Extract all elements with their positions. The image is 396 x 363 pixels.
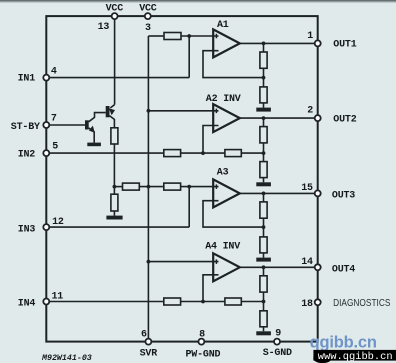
ground A2 divider (256, 182, 271, 186)
svg-text:IN3: IN3 (18, 224, 36, 235)
resistor bias shunt (111, 194, 118, 211)
transistor Q1 emitter arrow (89, 126, 95, 133)
pin 14 OUT4 (315, 264, 321, 270)
plus marker A2 (215, 109, 217, 114)
transistor Q2 base-collector (109, 116, 114, 128)
svg-text:14: 14 (301, 257, 313, 268)
svg-text:1: 1 (307, 31, 313, 42)
resistor A1 divider lower (260, 87, 267, 103)
svg-text:A4 INV: A4 INV (205, 241, 240, 252)
wire A4 plus input row (148, 261, 218, 263)
transistor Q1 emitter wire (89, 128, 95, 143)
resistor A4 divider lower (260, 311, 267, 327)
svg-text:OUT4: OUT4 (332, 264, 355, 275)
wire A1 output row (240, 42, 318, 44)
svg-text:OUT3: OUT3 (332, 190, 355, 201)
ground A4 divider (256, 331, 271, 335)
svg-text:DIAGNOSTICS: DIAGNOSTICS (333, 297, 390, 309)
svg-text:4: 4 (51, 67, 57, 78)
pin 2 OUT2 (315, 115, 321, 121)
resistor A4 feedback (225, 298, 241, 305)
wire A4 divider ground stub (263, 327, 265, 332)
watermark black box (313, 350, 396, 361)
pin 3 VCC (145, 13, 151, 19)
resistor A2 divider upper (260, 127, 267, 143)
wire A2 feedback to divider node (241, 152, 263, 154)
pin 8 PW-GND (198, 339, 204, 345)
junction A3 output (262, 192, 266, 196)
svg-text:6: 6 (141, 329, 147, 340)
svg-text:2: 2 (307, 106, 313, 117)
svg-text:13: 13 (98, 22, 110, 33)
wire A3 divider ground stub (263, 253, 265, 258)
resistor IN4 input (164, 298, 181, 305)
op-amp A3 (213, 179, 240, 207)
resistor IN2 input (164, 150, 181, 157)
pin 9 S-GND (274, 339, 280, 345)
pin 7 ST-BY (43, 122, 49, 128)
wire bias shunt stub (113, 187, 115, 195)
junction A2 output (262, 116, 266, 120)
wire bias shunt ground stub (113, 211, 115, 216)
svg-text:ST-BY: ST-BY (11, 122, 40, 133)
svg-text:18: 18 (301, 299, 313, 310)
junction bias row SVR line (147, 185, 151, 189)
plus marker A4 (215, 259, 217, 264)
pin 1 OUT1 (315, 40, 321, 46)
wire A4 feedback to divider node (241, 301, 263, 303)
plus marker A1 (215, 34, 217, 39)
resistor Q2 collector (111, 128, 118, 144)
junction A2 feedback node (262, 151, 266, 155)
pin 6 SVR (145, 339, 151, 345)
wire A2 divider ground stub (263, 178, 265, 183)
op-amp A4 (213, 253, 240, 281)
pin 5 IN2 (43, 150, 49, 156)
plus marker A3 (215, 184, 217, 189)
wire IN2 row (46, 152, 164, 154)
svg-text:SVR: SVR (140, 349, 158, 360)
svg-text:qgibb.cn: qgibb.cn (310, 334, 377, 352)
transistor Q2 base bar (106, 106, 110, 117)
ground Q1 emitter (87, 143, 101, 147)
svg-text:VCC: VCC (106, 3, 124, 14)
wire Q2 collector to bias node (113, 144, 115, 187)
resistor A3 divider lower (260, 237, 267, 253)
pin 13 VCC (112, 13, 118, 19)
svg-text:M92W141-03: M92W141-03 (41, 354, 92, 363)
wire bias row middle (139, 186, 164, 188)
svg-text:OUT2: OUT2 (333, 114, 356, 125)
junction A2 minus on IN2 row (201, 151, 205, 155)
svg-text:12: 12 (52, 217, 64, 228)
junction A4 minus on IN4 row (201, 300, 205, 304)
junction bias row IN3 riser (187, 185, 191, 189)
wire IN4 row (46, 301, 164, 303)
svg-text:IN1: IN1 (18, 74, 36, 85)
transistor Q2 emitter arrow (109, 108, 115, 115)
transistor Q1 base bar (85, 120, 89, 129)
svg-text:S-GND: S-GND (263, 348, 292, 359)
pin 12 IN3 (43, 224, 49, 230)
ground A1 divider (256, 108, 271, 112)
svg-text:8: 8 (199, 329, 205, 340)
svg-text:PW-GND: PW-GND (186, 350, 221, 361)
wire pin3 bias row (148, 35, 164, 37)
wire IN4 to feedback resistor (181, 301, 225, 303)
wire IN2 to feedback resistor (181, 152, 225, 154)
junction A1 feedback node (262, 76, 266, 80)
svg-text:IN2: IN2 (18, 149, 36, 160)
junction A4 plus on SVR line (147, 260, 151, 264)
wire ST-BY base (46, 124, 85, 126)
op-amp A1 (213, 29, 240, 57)
junction bias A1 row (187, 34, 191, 38)
wire bias row to A3 plus input (181, 186, 219, 188)
junction A3 feedback node (262, 225, 266, 229)
wire A1 divider ground stub (263, 103, 265, 108)
svg-text:7: 7 (51, 114, 57, 125)
svg-text:IN4: IN4 (18, 298, 36, 309)
resistor bias row right (164, 183, 181, 190)
resistor A2 divider lower (260, 162, 267, 178)
wire A3 divider upper stub (263, 193, 265, 202)
wire IN1 row (46, 77, 189, 79)
wire A1 divider mid stub (263, 68, 265, 87)
ground A3 divider (256, 258, 271, 262)
svg-text:VCC: VCC (139, 3, 157, 14)
wire A1 minus input (203, 51, 264, 78)
pin 4 IN1 (43, 75, 49, 81)
wire bias to A1 plus input (181, 35, 219, 37)
wire A2 output row (240, 117, 318, 119)
op-amp A2 (213, 104, 240, 132)
junction A4 feedback node (262, 300, 266, 304)
wire SVR vertical line (147, 36, 149, 342)
svg-text:11: 11 (52, 291, 64, 302)
transistor Q2 emitter wire with arrow (110, 105, 114, 108)
wire A3 output row (240, 192, 318, 194)
resistor A3 divider upper (260, 202, 267, 218)
resistor bias A1 (164, 33, 181, 40)
wire A3 divider mid stub (263, 218, 265, 237)
svg-text:15: 15 (301, 183, 313, 194)
wire A2 minus input riser (203, 126, 219, 154)
junction bias node (113, 185, 117, 189)
wire A2 plus input row (148, 110, 218, 112)
wire bias node to resistor row (114, 186, 122, 188)
svg-text:5: 5 (52, 141, 58, 152)
svg-text:www.qgibb.cn: www.qgibb.cn (318, 351, 393, 363)
svg-text:A1: A1 (217, 20, 229, 31)
resistor A2 feedback (225, 150, 241, 157)
ground bias shunt (106, 216, 122, 220)
junction A2 plus on SVR line (147, 109, 151, 113)
pin 15 OUT3 (315, 190, 321, 196)
svg-text:9: 9 (275, 329, 281, 340)
resistor A4 divider upper (260, 276, 267, 292)
junction A4 output (262, 265, 266, 269)
pin 18 DIAGNOSTICS (315, 299, 321, 305)
wire A4 divider mid stub (263, 292, 265, 311)
wire IN3 riser (188, 187, 190, 228)
wire A2 divider mid stub (263, 143, 265, 162)
wire A4 minus input riser (203, 275, 219, 302)
wire A1 divider upper stub (263, 43, 265, 52)
wire A2 divider upper stub (263, 118, 265, 127)
wire Q1 collector to Q2 base (89, 113, 106, 122)
wire IN1 riser (188, 36, 190, 78)
wire A3 minus input (203, 201, 264, 227)
wire A4 output row (240, 266, 318, 268)
IC boundary box (46, 16, 317, 342)
svg-text:A2 INV: A2 INV (206, 94, 241, 105)
junction A1 output (262, 42, 266, 46)
resistor A1 divider upper (260, 52, 267, 68)
svg-text:3: 3 (145, 23, 151, 34)
svg-text:A3: A3 (217, 168, 229, 179)
wire VCC pin13 vertical (114, 16, 116, 105)
svg-text:OUT1: OUT1 (333, 40, 356, 51)
wire IN3 row (46, 226, 189, 228)
pin 11 IN4 (43, 299, 49, 305)
wire A4 divider upper stub (263, 267, 265, 276)
resistor bias row left (123, 183, 140, 190)
watermark black blob (313, 354, 331, 363)
